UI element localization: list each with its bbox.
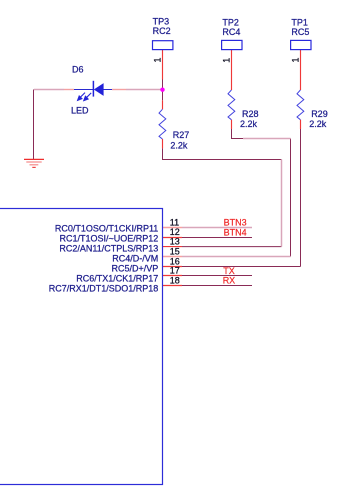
svg-text:LED: LED	[71, 106, 89, 116]
svg-text:RC0/T1OSO/T1CKI/RP11: RC0/T1OSO/T1CKI/RP11	[55, 223, 158, 233]
svg-text:RX: RX	[223, 276, 236, 286]
svg-text:TP1: TP1	[291, 17, 308, 27]
svg-text:R28: R28	[242, 109, 259, 119]
svg-text:TX: TX	[223, 266, 235, 276]
svg-text:11: 11	[170, 217, 179, 227]
svg-text:2.2k: 2.2k	[309, 119, 327, 129]
svg-text:D6: D6	[72, 65, 84, 75]
svg-text:BTN4: BTN4	[224, 228, 247, 238]
svg-text:RC4: RC4	[222, 27, 240, 37]
svg-text:RC2: RC2	[153, 26, 171, 36]
svg-text:15: 15	[170, 247, 180, 257]
svg-text:2.2k: 2.2k	[240, 119, 258, 129]
svg-text:17: 17	[170, 266, 180, 276]
svg-text:R29: R29	[311, 109, 328, 119]
svg-text:RC4/D-/VM: RC4/D-/VM	[112, 253, 158, 263]
svg-text:TP3: TP3	[153, 16, 170, 26]
svg-text:13: 13	[170, 237, 180, 247]
svg-text:R27: R27	[173, 130, 190, 140]
svg-text:RC1/T1OSI/~UOE/RP12: RC1/T1OSI/~UOE/RP12	[60, 233, 159, 243]
svg-text:RC2/AN11/CTPLS/RP13: RC2/AN11/CTPLS/RP13	[59, 243, 158, 253]
svg-text:1: 1	[290, 57, 300, 62]
svg-text:BTN3: BTN3	[224, 218, 247, 228]
svg-text:2.2k: 2.2k	[170, 141, 188, 151]
svg-text:RC5: RC5	[291, 27, 309, 37]
svg-text:RC6/TX1/CK1/RP17: RC6/TX1/CK1/RP17	[76, 273, 158, 283]
svg-text:TP2: TP2	[222, 17, 239, 27]
svg-text:RC5/D+/VP: RC5/D+/VP	[112, 263, 159, 273]
svg-text:18: 18	[170, 275, 180, 285]
svg-text:RC7/RX1/DT1/SDO1/RP18: RC7/RX1/DT1/SDO1/RP18	[49, 283, 159, 293]
svg-text:1: 1	[152, 57, 162, 62]
svg-text:1: 1	[221, 58, 231, 63]
